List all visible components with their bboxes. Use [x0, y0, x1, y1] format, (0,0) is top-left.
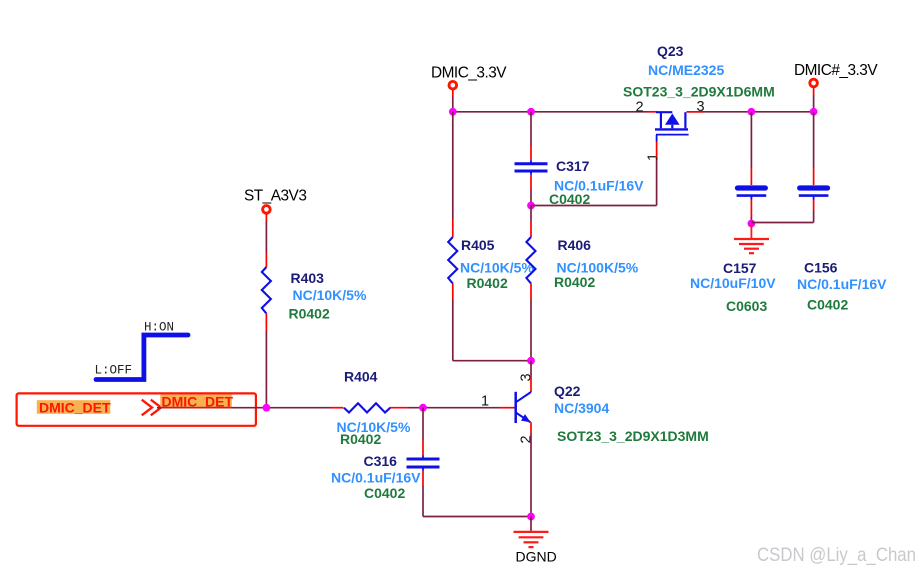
resistor R405 — [448, 219, 534, 299]
junction: rail / C157 — [748, 108, 756, 116]
svg-text:1: 1 — [481, 394, 489, 410]
svg-text:SOT23_3_2D9X1D3MM: SOT23_3_2D9X1D3MM — [557, 428, 709, 444]
junction: rail / R405 — [449, 108, 457, 116]
wire: R405 bottom leg — [453, 299, 531, 361]
capacitor C156 — [797, 168, 887, 313]
svg-text:2: 2 — [636, 99, 644, 115]
junction: collector node — [527, 357, 535, 365]
svg-text:R406: R406 — [558, 237, 592, 253]
wire: junction down to R406 — [530, 206, 532, 222]
capacitor C316 — [331, 441, 440, 502]
junction: C157 / C156 ground — [748, 220, 756, 228]
resistor R403 — [262, 253, 367, 332]
svg-text:NC/0.1uF/16V: NC/0.1uF/16V — [331, 469, 421, 485]
power terminal DMIC#_3.3V — [794, 62, 878, 95]
svg-text:C0402: C0402 — [807, 297, 848, 313]
svg-text:C156: C156 — [804, 260, 838, 276]
resistor R404 — [331, 369, 411, 447]
resistor R406 — [526, 221, 638, 299]
svg-text:1: 1 — [646, 153, 662, 161]
svg-text:NC/10K/5%: NC/10K/5% — [293, 287, 367, 303]
svg-text:3: 3 — [519, 373, 535, 381]
capacitor C317 — [515, 146, 645, 207]
wire: Q22 emitter down — [530, 434, 532, 517]
svg-text:DMIC_DET: DMIC_DET — [39, 399, 111, 415]
junction: rail / C156 — [810, 108, 818, 116]
junction: base net / R403 — [263, 404, 271, 412]
transistor Q22 — [481, 361, 709, 444]
svg-text:NC/10uF/10V: NC/10uF/10V — [690, 275, 776, 291]
svg-text:R405: R405 — [461, 237, 495, 253]
wire: R404 to Q22 base — [407, 407, 500, 409]
wire: junction down to C316 — [422, 408, 424, 441]
svg-text:NC/10K/5%: NC/10K/5% — [460, 259, 534, 275]
junction: C317 / gate net — [527, 202, 535, 210]
power terminal DMIC_3.3V — [431, 64, 507, 96]
junction: DGND node — [527, 513, 535, 521]
svg-text:Q23: Q23 — [657, 43, 684, 59]
transistor Q23 — [623, 43, 775, 161]
svg-text:DMIC#_3.3V: DMIC#_3.3V — [794, 62, 878, 79]
wire: ST_A3V3 to R403 — [265, 221, 267, 253]
wire: DMIC#_3.3V stub — [813, 95, 815, 112]
svg-text:R403: R403 — [291, 270, 325, 286]
wire: DMIC_3.3V stub — [452, 97, 454, 112]
junction: C316 tap — [419, 404, 427, 412]
svg-text:2: 2 — [519, 435, 535, 443]
svg-text:R0402: R0402 — [340, 431, 381, 447]
wire: rail down to C317 — [530, 112, 532, 146]
junction: rail / C317-R406 — [527, 108, 535, 116]
svg-text:CSDN @Liy_a_Chan: CSDN @Liy_a_Chan — [757, 544, 915, 566]
svg-text:H:ON: H:ON — [144, 320, 174, 334]
annotation waveform H:ON / L:OFF — [95, 320, 189, 379]
wire: C317 bottom to junction — [530, 189, 532, 206]
wire: DMIC_DET net to R404 — [157, 407, 331, 409]
svg-text:Q22: Q22 — [554, 383, 581, 399]
svg-text:DGND: DGND — [516, 549, 557, 565]
wire: rail down to C156 — [813, 112, 815, 168]
ground DGND — [514, 517, 557, 565]
svg-text:L:OFF: L:OFF — [95, 363, 133, 377]
svg-text:C316: C316 — [364, 453, 398, 469]
svg-text:R0402: R0402 — [289, 306, 330, 322]
svg-text:NC/3904: NC/3904 — [554, 400, 609, 416]
svg-text:NC/ME2325: NC/ME2325 — [648, 62, 724, 78]
svg-text:R404: R404 — [344, 369, 378, 385]
svg-text:C317: C317 — [556, 158, 590, 174]
svg-text:NC/100K/5%: NC/100K/5% — [557, 259, 639, 275]
svg-text:C0402: C0402 — [549, 191, 590, 207]
svg-text:C157: C157 — [723, 260, 757, 276]
wire: C157 bottom — [750, 217, 752, 224]
wire: R406 bottom leg — [530, 299, 532, 361]
svg-text:DMIC_3.3V: DMIC_3.3V — [431, 64, 507, 81]
power terminal ST_A3V3 — [244, 187, 306, 221]
wire: rail down to R405 — [452, 112, 454, 219]
capacitor C157 — [690, 168, 776, 314]
wire: rail down to C157 — [750, 112, 752, 168]
svg-text:NC/0.1uF/16V: NC/0.1uF/16V — [797, 276, 887, 292]
svg-text:ST_A3V3: ST_A3V3 — [244, 187, 306, 204]
svg-text:R0402: R0402 — [467, 275, 508, 291]
wire: main 3.3V rail — [453, 111, 814, 113]
watermark — [757, 544, 915, 566]
port box DMIC_DET — [17, 393, 256, 425]
ground (caps) — [734, 224, 769, 254]
wire: R403 to base net — [265, 331, 267, 408]
svg-text:C0603: C0603 — [726, 298, 767, 314]
svg-text:SOT23_3_2D9X1D6MM: SOT23_3_2D9X1D6MM — [623, 83, 775, 99]
svg-text:R0402: R0402 — [554, 274, 595, 290]
svg-text:C0402: C0402 — [364, 485, 405, 501]
wire: gate net — [531, 158, 657, 206]
wire: C316 to ground net — [423, 486, 531, 517]
wire: C156 bottom to ground junction — [751, 211, 813, 223]
